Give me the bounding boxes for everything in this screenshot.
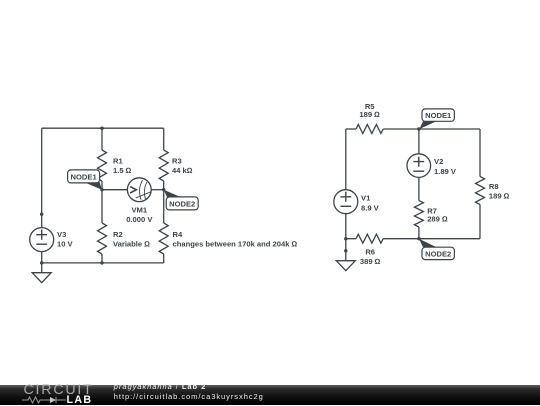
svg-text:NODE1: NODE1 xyxy=(71,172,98,181)
wire right-circuit top rail right part xyxy=(383,128,480,130)
voltmeter VM1 xyxy=(127,178,151,202)
wire VM1 left lead xyxy=(102,189,127,191)
svg-text:R8: R8 xyxy=(489,182,499,191)
label R4 value xyxy=(173,230,298,249)
node NODE1 right label xyxy=(422,109,454,121)
ground left circuit xyxy=(32,263,51,283)
node NODE1 left flag xyxy=(85,182,102,190)
node NODE2 left flag xyxy=(164,190,181,197)
label V2 value xyxy=(434,157,457,176)
footer bar xyxy=(0,385,540,405)
svg-text:R2: R2 xyxy=(113,230,123,239)
svg-text:10 V: 10 V xyxy=(57,240,74,249)
wire V3 bottom lead xyxy=(41,252,43,263)
wire R7 bottom lead xyxy=(418,227,420,239)
footer url text xyxy=(114,392,264,401)
resistor R4 xyxy=(159,223,168,254)
label VM1 value xyxy=(126,206,153,224)
label R1 value xyxy=(113,156,132,175)
voltage source V2 xyxy=(407,154,431,178)
wire right-circuit right vertical upper xyxy=(479,129,481,177)
wire right-circuit bottom rail right part xyxy=(383,238,480,240)
svg-text:R4: R4 xyxy=(173,230,183,239)
svg-text:changes between 170k and 204k: changes between 170k and 204k Ω xyxy=(173,239,298,248)
label V1 value xyxy=(361,194,380,213)
wire VM1 right lead xyxy=(151,189,164,191)
node NODE2 right label xyxy=(422,247,454,259)
svg-text:189 Ω: 189 Ω xyxy=(489,191,510,200)
wire left-circuit bottom rail xyxy=(42,262,164,264)
resistor R8 xyxy=(476,177,485,205)
svg-text:189 Ω: 189 Ω xyxy=(359,110,380,119)
label R2 value xyxy=(113,230,150,249)
voltage source V3 xyxy=(30,228,54,252)
ground right circuit xyxy=(336,239,355,271)
wire R1 top lead xyxy=(101,128,103,150)
label R6 value xyxy=(360,247,381,266)
node NODE1 left label xyxy=(68,170,100,183)
resistor R7 xyxy=(414,201,423,227)
label R7 value xyxy=(427,206,448,223)
resistor R1 xyxy=(98,150,107,181)
svg-text:289 Ω: 289 Ω xyxy=(427,215,448,224)
svg-text:V3: V3 xyxy=(57,230,66,239)
wire right-circuit top rail left part xyxy=(346,128,356,130)
label V3 value xyxy=(57,230,74,249)
node NODE2 right flag xyxy=(419,239,437,248)
wire R3 top lead xyxy=(163,128,165,150)
svg-text:V1: V1 xyxy=(361,194,371,203)
wire right-circuit bottom rail left part xyxy=(346,238,356,240)
svg-text:R1: R1 xyxy=(113,156,123,165)
wire V2 to R7 xyxy=(418,177,420,200)
svg-text:NODE2: NODE2 xyxy=(425,249,451,258)
wire left-circuit left vertical xyxy=(41,128,43,227)
svg-text:1.5 Ω: 1.5 Ω xyxy=(113,166,132,175)
svg-text:NODE1: NODE1 xyxy=(425,111,452,120)
voltage source V1 xyxy=(334,190,358,214)
svg-text:R6: R6 xyxy=(365,247,375,256)
svg-text:389 Ω: 389 Ω xyxy=(360,257,381,266)
svg-text:NODE2: NODE2 xyxy=(169,199,195,208)
svg-text:Variable Ω: Variable Ω xyxy=(113,239,150,248)
svg-text:1.89 V: 1.89 V xyxy=(434,167,457,176)
junction dots left circuit xyxy=(40,127,165,265)
svg-text:8.9 V: 8.9 V xyxy=(361,203,380,212)
node NODE1 right flag xyxy=(419,121,436,129)
label R5 value xyxy=(359,102,380,119)
wire left-circuit top rail xyxy=(42,127,164,129)
wire R3 bottom lead xyxy=(163,181,165,190)
node NODE2 left label xyxy=(166,197,198,210)
wire V1 bottom lead xyxy=(345,214,347,239)
resistor R5 xyxy=(356,125,383,134)
svg-text:44 kΩ: 44 kΩ xyxy=(172,166,193,175)
wire V2 top lead xyxy=(418,129,420,154)
CircuitLab logo resistor-diode motif xyxy=(22,395,68,405)
label R3 value xyxy=(172,156,193,175)
wire R4 bottom lead xyxy=(163,254,165,263)
svg-text:0.000 V: 0.000 V xyxy=(126,215,153,224)
label R8 value xyxy=(489,182,510,200)
resistor R2 xyxy=(98,223,107,254)
svg-text:R3: R3 xyxy=(172,156,182,165)
CircuitLab logo wordmark xyxy=(24,382,94,398)
resistor R6 xyxy=(356,234,383,243)
svg-text:VM1: VM1 xyxy=(131,206,147,215)
junction dots right circuit xyxy=(344,127,421,252)
wire right-circuit left vertical upper xyxy=(345,129,347,190)
wire R2 top lead xyxy=(101,190,103,223)
wire right-circuit right vertical lower xyxy=(479,205,481,239)
wire R4 top lead xyxy=(163,190,165,223)
resistor R3 xyxy=(159,150,168,181)
footer title text xyxy=(114,382,206,391)
wire R2 bottom lead xyxy=(101,254,103,263)
wire R1 bottom lead xyxy=(101,181,103,190)
svg-text:V2: V2 xyxy=(434,157,443,166)
